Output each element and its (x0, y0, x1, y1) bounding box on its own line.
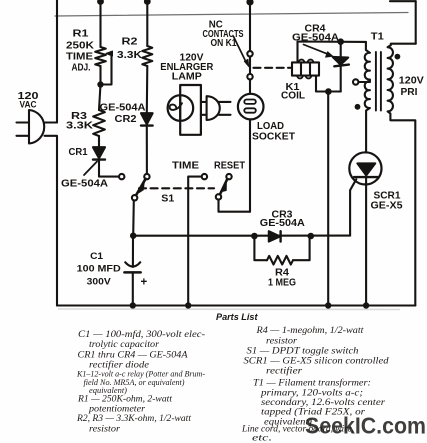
svg-text:RESET: RESET (214, 160, 245, 171)
mechanical link dashes NC contact to K1 coil (254, 67, 289, 69)
label R3 3.3K (66, 111, 94, 132)
label 120V ENLARGER LAMP (160, 53, 214, 83)
wire: S1 right common jog to center line (219, 200, 251, 212)
label 120V PRI (399, 75, 424, 98)
svg-text:3.3K: 3.3K (66, 121, 94, 132)
svg-text:GE-504A: GE-504A (61, 179, 108, 190)
label LOAD SOCKET (252, 121, 295, 143)
label 120 VAC (18, 91, 40, 110)
wire: R2 to CR2 (146, 66, 149, 113)
wire: TIME terminal to bottom bus (188, 177, 201, 306)
parts list right column (241, 326, 389, 443)
svg-text:3.3K: 3.3K (117, 50, 143, 61)
label GE-504A (CR1) with leader (61, 162, 108, 190)
resistor R3 3.3K (93, 110, 105, 136)
svg-text:rectifier: rectifier (266, 366, 302, 377)
wire: right border upper segment x=415.7 (415, 1, 417, 44)
label R4 1 MEG (268, 267, 296, 288)
svg-text:VAC: VAC (20, 100, 37, 110)
wire: S1 left common down to timing bus (132, 201, 135, 236)
relay coil K1 (288, 60, 319, 79)
SCR1 GE-X5 (349, 152, 381, 305)
wire: bottom bus (57, 304, 415, 306)
junction at top of R1 riser (cropped) (97, 0, 104, 5)
label GE-504A CR2 (100, 103, 146, 126)
faint scan shadow under bottom bus (58, 308, 400, 311)
svg-text:LOAD: LOAD (257, 121, 284, 132)
load socket SO1 (238, 94, 264, 120)
svg-text:SCR1 — GE-X5 silicon controlle: SCR1 — GE-X5 silicon controlled (244, 357, 389, 367)
T1 center tap terminal (353, 79, 370, 84)
junction at top of R2 riser (cropped) (144, 0, 151, 5)
junction: K1/CR4 node to SCR anode branch (325, 88, 332, 95)
svg-text:R1 — 250K-ohm, 2-watt: R1 — 250K-ohm, 2-watt (77, 395, 172, 405)
node: S1 right common terminal (216, 194, 221, 199)
wire: plug bottom lead then left rail down to bottom bus (45, 136, 58, 306)
svg-text:PRI: PRI (401, 87, 418, 98)
svg-text:CR2: CR2 (115, 114, 137, 125)
wire: riser x=147 (R2 branch) from top edge (146, 0, 148, 46)
T1 phasing dot (secondary) (355, 104, 361, 110)
label C1 100MFD 300V (77, 250, 121, 287)
wire: left rail x=57 from top edge down to plug top lead (56, 0, 58, 123)
label CR4 GE-504A (292, 23, 339, 43)
junction: S1 left common on timing bus (130, 233, 136, 239)
svg-text:C1 — 100-mfd, 300-volt elec-: C1 — 100-mfd, 300-volt elec- (78, 329, 205, 340)
label K1 COIL (281, 82, 305, 101)
svg-text:R1: R1 (73, 29, 90, 40)
svg-text:GE-504A: GE-504A (260, 218, 305, 229)
svg-text:GE-504A: GE-504A (100, 103, 146, 114)
wire: top-right corner stub at image edge (390, 0, 416, 2)
transformer T1 core (376, 52, 381, 111)
junction: TIME line on bottom bus (185, 302, 191, 308)
wire: CR2 to S1 left top terminal (146, 126, 148, 174)
T1 phasing dot (primary) (395, 54, 401, 60)
wire: K1/CR4 node down to bottom bus (327, 92, 329, 306)
junction: C1 on bottom bus (130, 302, 136, 308)
svg-text:S1: S1 (161, 194, 174, 205)
enlarger lamp: bulb circle (168, 95, 194, 121)
svg-text:CR1 thru CR4 — GE-504A: CR1 thru CR4 — GE-504A (78, 351, 188, 361)
junction R1 wiper tie (97, 81, 103, 87)
transformer T1 primary winding (388, 44, 416, 306)
svg-text:resistor: resistor (266, 337, 297, 347)
mechanical link dashes of S1 (139, 187, 214, 189)
svg-text:GE-504A: GE-504A (292, 33, 339, 44)
wire: center riser x=250 from top edge down to NC contact (249, 0, 251, 51)
wire: plug top lead to left rail (45, 121, 58, 123)
svg-text:S1 — DPDT toggle switch: S1 — DPDT toggle switch (247, 347, 359, 357)
svg-text:R2: R2 (122, 37, 139, 48)
label R2 3.3K (117, 37, 143, 62)
NC contacts on K1 (247, 51, 252, 79)
wire: timing bus y=235.7 (133, 235, 350, 237)
Parts List heading (216, 312, 258, 323)
diode CR2 GE-504A (141, 113, 153, 125)
svg-text:GE-X5: GE-X5 (371, 201, 403, 212)
svg-text:etc.: etc. (252, 434, 272, 443)
line cord plug P (120 VAC) (17, 110, 45, 144)
svg-text:ON K1: ON K1 (211, 38, 237, 49)
svg-text:trolytic capacitor: trolytic capacitor (89, 340, 159, 350)
wire: NC contact to load socket (249, 79, 251, 93)
leader arrow from CR4 label (304, 45, 333, 58)
resistor R4 1 MEG parallel loop (254, 236, 309, 265)
node: S1 left top terminal (from CR2) (144, 174, 149, 179)
capacitor C1 100MFD 300V electrolytic (124, 236, 140, 306)
switch S1 right pole blade (220, 179, 227, 194)
diode CR3 GE-504A on timing bus (269, 231, 281, 241)
lamp cord plug into load socket (201, 96, 231, 120)
faint horizontal scan line across top (55, 13, 408, 17)
svg-text:T1: T1 (371, 31, 384, 42)
svg-text:120V: 120V (399, 75, 424, 86)
svg-text:secondary, 12.6-volts center: secondary, 12.6-volts center (261, 398, 385, 408)
svg-text:1 MEG: 1 MEG (268, 278, 296, 289)
svg-text:ADJ.: ADJ. (72, 63, 91, 74)
resistor R1 250K potentiometer (95, 47, 112, 85)
parts list left column (76, 329, 205, 435)
svg-text:T1 — Filament transformer:: T1 — Filament transformer: (253, 378, 371, 389)
svg-text:TIME: TIME (172, 160, 199, 171)
wire: K1 coil top lead up and right along y=41.5 to T1 secondary (298, 42, 366, 63)
wire: CR1 to S1 left throw terminal (99, 160, 119, 177)
svg-text:R2, R3 — 3.3K-ohm, 1/2-watt: R2, R3 — 3.3K-ohm, 1/2-watt (76, 414, 191, 424)
svg-text:300V: 300V (87, 276, 112, 287)
label NC CONTACTS ON K1 (203, 19, 244, 49)
svg-text:primary, 120-volts a-c;: primary, 120-volts a-c; (260, 389, 363, 399)
diode CR4 GE-504A (333, 42, 349, 92)
svg-text:resistor: resistor (89, 425, 120, 435)
wire: load socket down the center line to RESET jog (249, 119, 251, 211)
svg-text:C1: C1 (90, 250, 103, 261)
node: TIME terminal (202, 174, 207, 179)
junction: SCR cathode on bottom bus (363, 302, 369, 308)
enlarger lamp: socket rectangle (180, 85, 201, 135)
resistor R2 3.3K (142, 46, 152, 66)
wire: R3 to CR1 (98, 136, 100, 147)
transformer T1 secondary winding (365, 42, 370, 153)
leader arrow from NC label (234, 37, 249, 67)
switch S1 left pole blade (136, 179, 146, 196)
svg-text:+: + (140, 277, 147, 289)
wire: K1 coil bottom lead to CR4 cathode node (316, 76, 341, 92)
junction: K1/CR4 branch on bottom bus (325, 302, 331, 308)
wire: riser x=100 (R1 branch) from top edge (99, 0, 101, 47)
svg-text:TIME: TIME (66, 52, 93, 63)
svg-text:LAMP: LAMP (172, 72, 202, 83)
node: RESET terminal (226, 174, 231, 179)
enlarger lamp: rect edge through bulb (179, 96, 181, 121)
node: S1 left throw terminal (from CR1) (119, 174, 124, 179)
svg-text:COIL: COIL (281, 90, 305, 101)
svg-text:Parts List: Parts List (216, 312, 258, 323)
svg-text:CR1: CR1 (69, 147, 88, 158)
junction: CR3/R4 right node (308, 233, 315, 240)
svg-text:SOCKET: SOCKET (252, 131, 295, 142)
label SCR1 GE-X5 (371, 190, 403, 211)
svg-text:R4 — 1-megohm, 1/2-watt: R4 — 1-megohm, 1/2-watt (255, 326, 364, 336)
svg-text:250K: 250K (66, 41, 95, 52)
wire: R1 to R3 (99, 66, 101, 85)
node: S1 left common terminal (132, 195, 137, 200)
label CR3 GE-504A (260, 209, 305, 229)
svg-text:SeekIC.com: SeekIC.com (305, 413, 426, 439)
junction at top of center riser (cropped) (246, 0, 253, 6)
svg-text:potentiometer: potentiometer (88, 405, 145, 415)
svg-text:100 MFD: 100 MFD (77, 262, 121, 273)
label + polarity (140, 277, 147, 289)
label R1 250K TIME ADJ (66, 29, 95, 74)
junction: CR3/R4 left node (251, 233, 258, 240)
junction: CR4 anode node on top wire (337, 38, 344, 45)
diode CR1 GE-504A (93, 147, 105, 159)
enlarger lamp: filament loop (170, 103, 182, 110)
